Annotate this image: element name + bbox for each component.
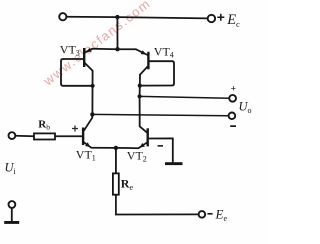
label: VT1 input + polarity [72, 126, 78, 132]
resistor Rb [34, 133, 55, 139]
terminal: input ground-side terminal [9, 201, 16, 208]
junction: VT4 collector / base tie [138, 84, 142, 88]
wire: VT3 base-to-collector tie loop [61, 59, 93, 86]
wire: Rb to VT1 base [55, 135, 82, 137]
svg-text:+: + [231, 85, 236, 95]
watermark www.elecfans.com [40, 0, 154, 89]
wire: vertical from top rail down to PNP emitter rail [116, 17, 118, 49]
arrow: VT2 emitter arrow (NPN, points away from bar) [140, 143, 145, 148]
transistor VT3 (PNP) [83, 48, 93, 114]
svg-text:www.elecfans.com: www.elecfans.com [40, 0, 154, 89]
svg-text:Ee: Ee [215, 207, 228, 223]
svg-text:VT3: VT3 [60, 43, 80, 58]
arrow: VT4 emitter arrow (points into base bar, PNP) [141, 50, 147, 54]
arrow: VT3 emitter arrow (points into base bar, PNP) [86, 48, 92, 52]
svg-text:VT4: VT4 [154, 45, 174, 60]
svg-text:VT2: VT2 [127, 149, 147, 164]
junction: top rail / vertical feed [115, 15, 119, 19]
wire: emitter junction down to Re [115, 148, 117, 174]
wire: VT4 base-to-collector tie loop [140, 61, 174, 85]
resistor Re [113, 173, 119, 194]
transistor VT2 (NPN) [139, 126, 149, 148]
label: +Ec plus sign [217, 14, 224, 21]
wire: output (+) lead from VT2/VT4 collector node [140, 96, 230, 98]
wire: emitter rail between VT3 and VT4 emitters [92, 48, 136, 51]
wire: input terminal to Rb [15, 135, 34, 137]
arrow: VT1 emitter arrow (NPN, points away from bar) [85, 142, 90, 147]
ground: VT2 base ground symbol [165, 162, 183, 165]
terminal: -Ee terminal [199, 211, 206, 218]
terminal: top-left supply terminal [59, 13, 66, 20]
wire: +Ec top rail [66, 17, 207, 19]
junction: collector node to output (+) [138, 94, 142, 98]
terminal: +Ec terminal circle [208, 15, 215, 22]
wire: output (-) lead from VT1/VT3 collector node (crosses VT2 collector) [92, 114, 228, 115]
junction: VT1/VT3 collector node [90, 112, 94, 116]
svg-text:Uo: Uo [239, 100, 252, 116]
junction: emitter rail / vertical feed [115, 47, 119, 51]
junction: VT3 collector / base tie [91, 84, 95, 88]
wire: Re bottom to -Ee rail [116, 195, 199, 215]
transistor VT1 (NPN) [82, 114, 92, 147]
wire: VT2 base lead to ground [149, 138, 173, 162]
label: -Ee minus sign [207, 213, 212, 215]
ground: input ground symbol [4, 221, 19, 224]
svg-text:Rb: Rb [38, 119, 50, 132]
wire: VT4 collector vertical down to VT2 collector [139, 96, 141, 126]
label: VT2 input - polarity [158, 145, 163, 147]
svg-text:Ui: Ui [5, 161, 17, 177]
label: output - polarity [230, 125, 236, 127]
terminal: output (+) terminal [229, 95, 236, 102]
terminal: input Ui terminal [9, 132, 16, 139]
svg-text:Ec: Ec [226, 12, 240, 29]
terminal: output (-) terminal [229, 113, 236, 120]
transistor VT4 (PNP) [136, 49, 150, 96]
svg-text:Re: Re [121, 177, 134, 192]
junction: emitter rail to Re [114, 146, 118, 150]
wire: terminal to input ground [11, 208, 13, 221]
svg-text:VT1: VT1 [76, 148, 96, 163]
wire: shared emitter rail of VT1/VT2 [91, 147, 138, 150]
